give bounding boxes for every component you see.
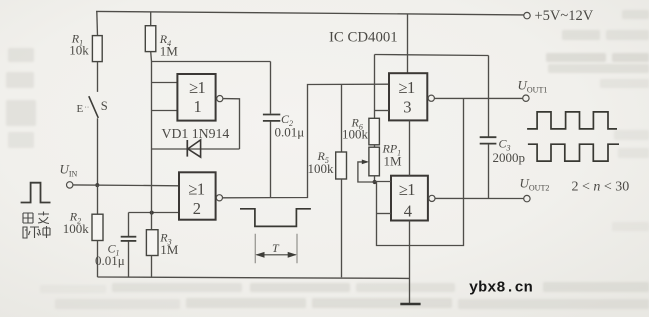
svg-text:2 < n < 30: 2 < n < 30 xyxy=(572,180,630,195)
svg-text:E: E xyxy=(77,103,84,115)
svg-text:S: S xyxy=(101,99,108,113)
svg-text:100k: 100k xyxy=(342,127,369,142)
svg-text:1M: 1M xyxy=(160,242,179,257)
svg-text:2000p: 2000p xyxy=(493,150,526,165)
svg-text:≥1: ≥1 xyxy=(398,78,415,97)
svg-text:≥1: ≥1 xyxy=(399,180,416,199)
svg-text:+5V~12V: +5V~12V xyxy=(535,8,594,24)
svg-text:10k: 10k xyxy=(69,43,89,58)
svg-text:≥1: ≥1 xyxy=(188,180,205,199)
svg-text:1M: 1M xyxy=(384,154,403,169)
svg-text:VD1 1N914: VD1 1N914 xyxy=(162,126,230,141)
svg-text:IC CD4001: IC CD4001 xyxy=(329,29,398,45)
svg-text:··: ·· xyxy=(85,104,90,112)
svg-text:1: 1 xyxy=(194,97,202,116)
svg-text:1M: 1M xyxy=(160,43,179,58)
svg-text:3: 3 xyxy=(403,97,411,116)
svg-text:100k: 100k xyxy=(308,161,335,176)
svg-text:≥1: ≥1 xyxy=(189,78,206,97)
svg-text:2: 2 xyxy=(193,199,201,218)
svg-text:0.01μ: 0.01μ xyxy=(95,253,125,268)
svg-text:100k: 100k xyxy=(63,221,90,236)
svg-text:4: 4 xyxy=(404,201,412,220)
svg-text:ybx8.cn: ybx8.cn xyxy=(469,279,533,297)
svg-text:0.01μ: 0.01μ xyxy=(275,124,305,139)
